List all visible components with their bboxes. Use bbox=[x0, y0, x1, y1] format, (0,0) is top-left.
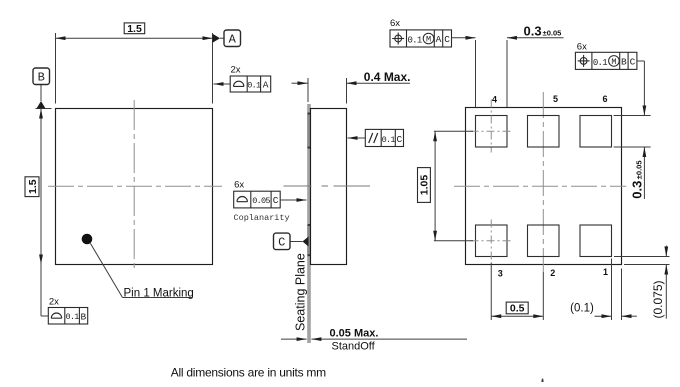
dimension 1.5 vertical boxed value bbox=[25, 177, 39, 197]
svg-text:0.4 Max.: 0.4 Max. bbox=[364, 70, 411, 84]
dimension 1.5 horizontal dimension line bbox=[56, 37, 213, 39]
svg-text:0.1: 0.1 bbox=[593, 58, 607, 68]
svg-text:6x: 6x bbox=[234, 180, 244, 191]
top view package body outline bbox=[56, 109, 213, 265]
dimension 0.1 reference extension lines bbox=[611, 259, 613, 321]
position frame BC box bbox=[575, 52, 637, 69]
svg-text:2x: 2x bbox=[49, 297, 59, 308]
svg-text:2: 2 bbox=[550, 268, 555, 278]
svg-text:Pin 1 Marking: Pin 1 Marking bbox=[124, 287, 194, 299]
svg-text:StandOff: StandOff bbox=[332, 341, 376, 353]
feature control frame 2x profile 0.1 A leader bbox=[214, 83, 231, 85]
parallelism frame leader bbox=[348, 137, 366, 139]
dimension 0.3 pad width dimension line bbox=[452, 37, 476, 39]
datum C leader bbox=[290, 241, 302, 243]
cropped footer mark bbox=[541, 379, 543, 382]
svg-text:M: M bbox=[611, 57, 616, 67]
svg-text:C: C bbox=[273, 195, 279, 206]
svg-text:4: 4 bbox=[492, 95, 497, 105]
pad 3 crosshair bbox=[471, 240, 513, 242]
bottom view vertical centerline bbox=[542, 92, 544, 272]
feature control frame 2x profile 0.1 B box bbox=[48, 308, 87, 325]
svg-text:0.3: 0.3 bbox=[630, 181, 645, 199]
svg-text:5: 5 bbox=[553, 94, 558, 104]
pad 4 crosshair bbox=[471, 130, 513, 132]
datum C box bbox=[274, 233, 291, 250]
svg-text:0.05: 0.05 bbox=[252, 196, 270, 206]
parallelism frame box bbox=[365, 129, 403, 146]
pad 6 bbox=[580, 116, 612, 148]
side view horizontal centerline bbox=[284, 185, 371, 187]
pad 1 bbox=[580, 225, 612, 257]
svg-text:0.3: 0.3 bbox=[524, 23, 542, 38]
dimension 1.5 vertical dimension line bbox=[40, 109, 42, 265]
position frame BC leader bbox=[637, 60, 645, 62]
pad 4 bbox=[476, 116, 508, 148]
dimension 0.3 pad width extension lines bbox=[475, 40, 477, 107]
dimension 1.05 boxed value bbox=[418, 168, 431, 203]
pad 5 bbox=[528, 116, 560, 148]
svg-text:6x: 6x bbox=[577, 42, 587, 53]
bottom view package body outline bbox=[466, 108, 622, 265]
seating plane band bbox=[307, 104, 311, 343]
svg-text:0.1: 0.1 bbox=[65, 312, 79, 322]
dimension 0.5 extension lines bbox=[490, 263, 492, 321]
svg-text:3: 3 bbox=[498, 269, 503, 279]
svg-text:±0.05: ±0.05 bbox=[543, 28, 562, 37]
svg-text:All dimensions are in units mm: All dimensions are in units mm bbox=[171, 365, 326, 379]
svg-text:(0.1): (0.1) bbox=[570, 303, 594, 315]
datum C triangle bbox=[303, 237, 309, 247]
dimension 0.1 reference dimension line bbox=[595, 315, 612, 317]
dimension 0.5 boxed value bbox=[506, 302, 528, 314]
svg-text:Seating Plane: Seating Plane bbox=[294, 253, 308, 331]
svg-text:6x: 6x bbox=[390, 18, 400, 29]
feature control frame 2x profile 0.1 B leader bbox=[40, 265, 42, 317]
svg-text:0.1: 0.1 bbox=[407, 35, 421, 45]
position frame AC box bbox=[390, 30, 452, 47]
coplanarity frame box bbox=[234, 191, 281, 208]
top view horizontal centerline bbox=[48, 185, 222, 187]
dimension 1.05 dimension line bbox=[434, 131, 436, 241]
svg-text:1: 1 bbox=[603, 267, 608, 277]
side view terminal pad lower bbox=[307, 225, 310, 256]
dimension 0.05 Max standoff dimension line bbox=[281, 338, 307, 340]
svg-text:±0.05: ±0.05 bbox=[635, 160, 644, 179]
svg-text:A: A bbox=[263, 80, 269, 91]
svg-text:A: A bbox=[229, 33, 237, 47]
svg-text:0.5: 0.5 bbox=[510, 303, 525, 315]
dimension 0.075 reference dimension line bbox=[665, 246, 667, 257]
svg-text:6: 6 bbox=[602, 94, 607, 104]
dimension 0.4 Max extension lines bbox=[307, 78, 309, 102]
dimension 1.5 vertical extension line bbox=[36, 108, 52, 110]
svg-text:B: B bbox=[81, 311, 87, 322]
svg-text:C: C bbox=[397, 134, 403, 145]
svg-text:(0.075): (0.075) bbox=[651, 280, 665, 318]
svg-text:A: A bbox=[436, 34, 442, 45]
svg-text:0.05 Max.: 0.05 Max. bbox=[330, 328, 379, 340]
svg-text:B: B bbox=[621, 57, 627, 68]
svg-text:0.1: 0.1 bbox=[382, 135, 396, 145]
svg-text:C: C bbox=[630, 57, 636, 68]
pin 1 marking leader bbox=[90, 243, 122, 297]
datum A box bbox=[224, 30, 241, 47]
svg-text:0.1: 0.1 bbox=[247, 80, 261, 90]
svg-text:C: C bbox=[444, 34, 450, 45]
svg-text:Coplanarity: Coplanarity bbox=[234, 213, 290, 223]
svg-text:1.05: 1.05 bbox=[419, 175, 431, 196]
bottom view horizontal centerline bbox=[454, 185, 626, 187]
dimension 0.3 pad height dimension line bbox=[643, 106, 647, 116]
svg-text:1.5: 1.5 bbox=[27, 179, 39, 194]
dimension 0.4 Max dimension line bbox=[292, 82, 308, 84]
svg-text:1.5: 1.5 bbox=[127, 23, 142, 35]
pad 2 bbox=[528, 225, 560, 257]
svg-text:C: C bbox=[278, 236, 285, 250]
dimension 1.05 extension lines bbox=[434, 130, 473, 132]
top view vertical centerline bbox=[133, 100, 135, 272]
dimension 1.5 horizontal extension lines bbox=[55, 33, 57, 104]
feature control frame 2x profile 0.1 A box bbox=[230, 76, 271, 92]
dimension 0.5 dimension line bbox=[491, 315, 543, 317]
coplanarity frame leader bbox=[280, 199, 306, 201]
pad 3 bbox=[476, 225, 508, 257]
svg-text:M: M bbox=[426, 35, 431, 45]
svg-text:2x: 2x bbox=[231, 65, 241, 76]
side view terminal pad upper bbox=[307, 114, 310, 149]
side view package body outline bbox=[311, 109, 347, 265]
svg-text:B: B bbox=[38, 71, 45, 85]
datum B box bbox=[33, 68, 50, 85]
datum B triangle bbox=[37, 101, 46, 109]
dimension 1.5 horizontal boxed value bbox=[124, 23, 145, 34]
dimension 0.075 reference extension lines bbox=[614, 256, 670, 258]
dimension 0.3 pad height extension lines bbox=[614, 115, 651, 117]
pin 1 marking dot bbox=[82, 234, 93, 245]
datum A triangle bbox=[213, 34, 221, 43]
